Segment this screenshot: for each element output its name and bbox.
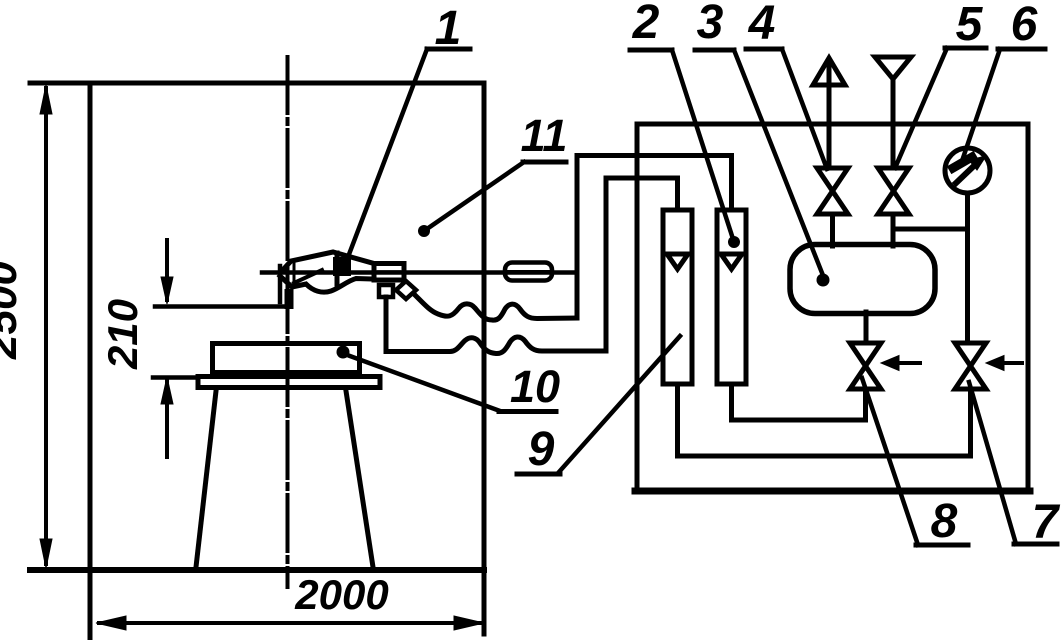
svg-text:210: 210 <box>99 299 146 370</box>
svg-text:3: 3 <box>697 0 724 49</box>
svg-text:2500: 2500 <box>0 261 26 360</box>
svg-text:2: 2 <box>632 0 660 49</box>
svg-text:7: 7 <box>1032 496 1061 549</box>
svg-text:1: 1 <box>435 2 462 55</box>
svg-text:10: 10 <box>510 361 560 412</box>
svg-text:4: 4 <box>748 0 776 50</box>
svg-text:6: 6 <box>1011 0 1038 51</box>
svg-text:8: 8 <box>931 495 958 548</box>
svg-text:5: 5 <box>956 0 984 51</box>
svg-text:2000: 2000 <box>294 571 388 618</box>
svg-text:11: 11 <box>521 110 568 161</box>
svg-text:9: 9 <box>528 423 555 476</box>
